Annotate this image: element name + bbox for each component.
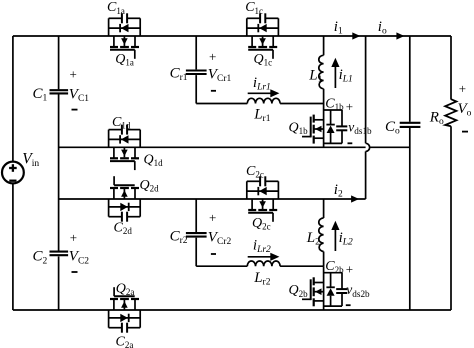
plus of Cr1 — [209, 49, 216, 64]
wire vertical node branch — [365, 36, 367, 199]
wire top rail — [13, 35, 451, 37]
wire rail1 left — [59, 146, 366, 148]
label Co — [385, 119, 400, 137]
resistor Ro — [445, 99, 456, 126]
label Ro — [429, 110, 444, 128]
label Lr2 — [253, 270, 271, 288]
wire Cr1 branch — [195, 36, 197, 104]
label vds2b — [346, 282, 370, 299]
minus of vds2b — [346, 304, 351, 306]
label C1a — [107, 0, 125, 16]
label iL1 — [339, 67, 353, 85]
label Q1c — [254, 52, 273, 68]
label i2 — [334, 182, 343, 200]
wire midpoint branch — [58, 36, 60, 310]
label L1 — [308, 67, 322, 85]
svg-text:+: + — [70, 230, 77, 245]
label VC2 — [69, 249, 90, 267]
capacitor C2 — [50, 252, 69, 256]
label i1 — [334, 19, 343, 37]
svg-text:+: + — [346, 99, 353, 114]
wire left branch upper — [12, 36, 14, 162]
label Q2c — [252, 216, 271, 232]
minus of vds1b — [348, 142, 353, 144]
label iLr2 — [253, 238, 271, 256]
plus of C2 — [70, 230, 77, 245]
capacitor C1a and body diode with MOSFET Q1a — [109, 13, 141, 59]
svg-text:+: + — [459, 81, 466, 96]
label C2c — [246, 164, 264, 180]
label io — [378, 19, 387, 37]
current arrow iLr2 — [248, 253, 280, 261]
label VC1 — [69, 87, 90, 105]
current arrow iL1 — [331, 58, 339, 88]
label C2 — [33, 249, 48, 267]
capacitor C1c and body diode with MOSFET Q1c — [247, 13, 279, 59]
label C1 — [33, 86, 48, 104]
label Q2b — [289, 283, 309, 299]
source Vin — [2, 162, 24, 184]
minus of Cr1 — [211, 90, 216, 92]
svg-text:+: + — [209, 210, 216, 225]
capacitor C2a and body diode with MOSFET Q2a — [109, 287, 141, 333]
label C1b — [325, 97, 344, 113]
label VCr1 — [208, 67, 232, 85]
label C1d — [112, 115, 131, 131]
capacitor C1d and body diode with MOSFET Q1d — [109, 125, 141, 171]
capacitor Co branch — [409, 36, 411, 310]
label iL2 — [339, 230, 353, 248]
current arrow i2 — [351, 195, 359, 202]
wire hop of rail1 over node — [366, 143, 370, 151]
label Q1b — [289, 121, 309, 137]
wire right branch lower — [450, 126, 452, 310]
current arrow iL2 — [331, 221, 339, 251]
plus of C1b — [346, 99, 353, 114]
inductor Lr1 — [196, 98, 323, 103]
label iLr1 — [253, 75, 271, 93]
label Q2d — [140, 178, 160, 194]
plus of Cr2 — [209, 210, 216, 225]
MOSFET Q2b with body diode and capacitor C2b — [302, 266, 347, 310]
wire Cr2 branch — [195, 199, 197, 266]
label Vo — [458, 101, 472, 119]
capacitor Cr2 — [186, 233, 207, 237]
capacitor C2d and body diode with MOSFET Q2d — [109, 176, 141, 222]
wire bottom rail — [13, 309, 451, 311]
plus of C1 — [70, 67, 77, 82]
label Vin — [22, 151, 39, 170]
capacitor C2c and body diode with MOSFET Q2c — [247, 176, 279, 222]
svg-text:+: + — [70, 67, 77, 82]
plus of C2b — [346, 262, 353, 277]
wire rail2 — [59, 198, 366, 200]
capacitor Cr1 — [186, 71, 207, 75]
label Lr1 — [253, 106, 271, 124]
label Cr1 — [170, 65, 188, 83]
label Cr2 — [170, 228, 188, 246]
label C2a — [116, 335, 134, 348]
label L2 — [306, 230, 320, 248]
capacitor C1 — [50, 90, 69, 93]
minus of Cr2 — [211, 253, 216, 255]
MOSFET Q1b with body diode and capacitor C1b — [302, 104, 347, 148]
wire left branch lower — [12, 183, 14, 310]
plus of Vo — [459, 81, 466, 96]
inductor L1 — [319, 36, 324, 104]
svg-text:+: + — [209, 49, 216, 64]
current arrow io — [396, 32, 404, 39]
inductor L2 — [319, 199, 324, 266]
wire rail1 right — [370, 146, 410, 148]
minus of C2 — [72, 271, 78, 273]
capacitor Co — [400, 123, 421, 127]
label Q1d — [144, 153, 164, 169]
current arrow iLr1 — [248, 89, 280, 97]
label Q2a — [116, 282, 135, 298]
svg-text:+: + — [346, 262, 353, 277]
current arrow i1 — [352, 32, 360, 39]
label Q1a — [115, 52, 134, 68]
minus of C1 — [72, 109, 78, 111]
inductor Lr2 — [196, 261, 323, 266]
minus of Vo — [462, 131, 468, 133]
wire right branch upper — [450, 36, 452, 100]
label C1c — [245, 0, 263, 16]
label C2d — [114, 221, 133, 237]
label VCr2 — [208, 229, 232, 247]
label C2b — [325, 259, 344, 275]
label vds1b — [348, 120, 372, 137]
